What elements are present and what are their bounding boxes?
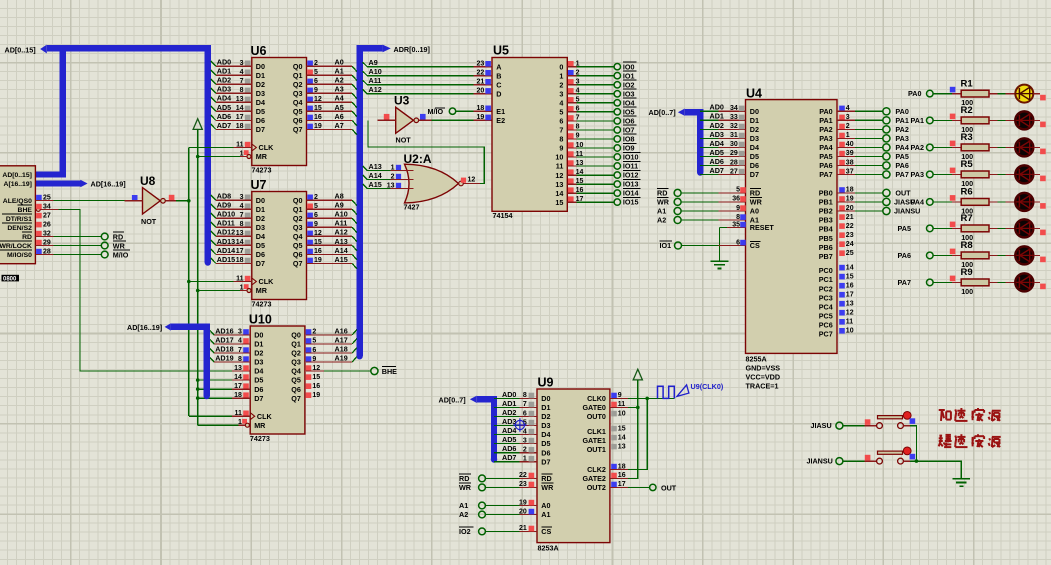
svg-text:8253A: 8253A bbox=[538, 544, 559, 553]
resistor R9 100 bbox=[961, 267, 990, 296]
bus entry AD19 to U10 bbox=[209, 357, 250, 362]
wire terminal to R8 bbox=[933, 249, 961, 256]
svg-text:6: 6 bbox=[523, 410, 527, 417]
wire U7 CLK pin bbox=[189, 281, 252, 283]
digital clock generator U9(CLK0) bbox=[658, 382, 724, 398]
svg-text:14: 14 bbox=[846, 264, 854, 271]
svg-text:D0: D0 bbox=[256, 196, 265, 205]
terminal A1 and wire to U9 pin 19 bbox=[459, 499, 537, 510]
svg-text:OUT: OUT bbox=[661, 484, 677, 493]
svg-text:PB0: PB0 bbox=[819, 189, 833, 198]
svg-text:R5: R5 bbox=[961, 159, 974, 170]
timer U9 body (8253A) bbox=[537, 376, 610, 553]
terminal IO15 bbox=[614, 197, 640, 206]
wire U10 Q0 to address bus (A16) bbox=[306, 326, 357, 335]
bus entry AD17 to U10 bbox=[209, 339, 250, 344]
svg-text:0: 0 bbox=[559, 62, 563, 71]
wire U3 output to U5 E2 bbox=[419, 119, 492, 121]
U4 pin 10 PC7 square bbox=[839, 328, 853, 335]
svg-text:JIANSU: JIANSU bbox=[807, 457, 833, 466]
U9 pin 2 D6 from bus (AD6) bbox=[494, 444, 537, 453]
U9 pin 8 D0 from bus (AD0) bbox=[494, 390, 537, 399]
resistor R1 100 bbox=[961, 78, 990, 107]
svg-text:1: 1 bbox=[559, 71, 563, 80]
U5 pin 19 E2 square bbox=[477, 114, 491, 121]
U5 output 8 (pin 9) wire to terminal IO8 bbox=[567, 133, 614, 140]
wire WR to terminal bbox=[35, 245, 101, 247]
svg-text:E1: E1 bbox=[496, 107, 505, 116]
U4 pin 15 PC1 square bbox=[839, 273, 853, 280]
svg-text:RD: RD bbox=[657, 189, 667, 198]
svg-text:22: 22 bbox=[846, 223, 854, 230]
svg-text:D4: D4 bbox=[256, 232, 265, 241]
bus entry AD13 to U7 bbox=[211, 240, 252, 245]
svg-text:ALE/QS0: ALE/QS0 bbox=[3, 198, 32, 205]
svg-text:DT/R/S1: DT/R/S1 bbox=[6, 216, 32, 223]
svg-text:A13: A13 bbox=[335, 237, 348, 246]
U5 output 12 (pin 14) wire to terminal IO12 bbox=[567, 169, 614, 176]
svg-text:A12: A12 bbox=[335, 228, 348, 237]
svg-text:PA6: PA6 bbox=[895, 161, 908, 170]
svg-text:RD: RD bbox=[750, 189, 760, 198]
svg-text:CLK: CLK bbox=[257, 412, 273, 421]
terminal feeding R6 bbox=[927, 199, 934, 206]
svg-text:PC3: PC3 bbox=[819, 293, 833, 302]
bus entry AD12 to U7 bbox=[211, 231, 252, 236]
U6 pin 11 CLK bbox=[236, 141, 250, 148]
svg-text:U9: U9 bbox=[538, 376, 554, 390]
wire U7 Q5 to address bus (A13) bbox=[307, 237, 357, 251]
svg-text:AD7: AD7 bbox=[502, 453, 516, 462]
svg-text:3: 3 bbox=[559, 90, 563, 99]
svg-text:11: 11 bbox=[556, 162, 564, 171]
svg-text:A11: A11 bbox=[335, 219, 348, 228]
svg-text:16: 16 bbox=[312, 383, 320, 390]
U4 pin 14 PC0 square bbox=[839, 264, 853, 271]
wire CLK0 to CLK2 bbox=[610, 398, 647, 469]
svg-text:Q7: Q7 bbox=[291, 394, 301, 403]
svg-text:IO1: IO1 bbox=[623, 71, 635, 80]
wire JIANSU terminal to button bbox=[843, 455, 877, 461]
svg-text:TRACE=1: TRACE=1 bbox=[746, 382, 779, 391]
svg-text:M/IO: M/IO bbox=[113, 251, 129, 260]
wire CLK vertical net bbox=[187, 148, 191, 417]
svg-text:Q4: Q4 bbox=[291, 367, 301, 376]
origin marker (blue crosshair) bbox=[513, 418, 527, 432]
wire R2 to LED bbox=[989, 119, 1015, 121]
svg-text:A6: A6 bbox=[335, 112, 344, 121]
svg-text:AD16: AD16 bbox=[215, 326, 233, 335]
terminal IO3 bbox=[614, 89, 636, 98]
net label PA3 for R5 bbox=[911, 170, 924, 179]
U4 pin 35 RESET wire to ground bbox=[720, 221, 746, 261]
terminal IO13 bbox=[614, 179, 640, 188]
svg-text:GATE1: GATE1 bbox=[582, 436, 605, 445]
svg-text:AD4: AD4 bbox=[502, 426, 516, 435]
svg-text:CLK1: CLK1 bbox=[587, 427, 606, 436]
terminal PA4 bbox=[883, 143, 909, 152]
bus entry A10 to U5 input bbox=[363, 67, 492, 76]
svg-text:AD2: AD2 bbox=[217, 76, 231, 85]
svg-text:D5: D5 bbox=[254, 376, 263, 385]
svg-text:AD8: AD8 bbox=[217, 192, 231, 201]
bus entry AD18 to U10 bbox=[209, 348, 250, 353]
wire terminal to R3 bbox=[933, 141, 961, 148]
U4 pin 18 PB0 wire to terminal OUT bbox=[837, 187, 883, 194]
wire U10 D6 tied to VCC net bbox=[198, 388, 251, 390]
wire U6 Q0 to address bus (A0) bbox=[307, 58, 357, 72]
svg-text:A18: A18 bbox=[335, 344, 348, 353]
svg-text:AD6: AD6 bbox=[217, 112, 231, 121]
U6 pin 1 MR bubble bbox=[240, 150, 251, 158]
svg-text:PA0: PA0 bbox=[908, 89, 921, 98]
svg-text:21: 21 bbox=[477, 79, 485, 86]
svg-text:AD9: AD9 bbox=[217, 201, 231, 210]
svg-text:9: 9 bbox=[736, 205, 740, 212]
svg-text:D6: D6 bbox=[750, 161, 759, 170]
svg-text:AD10: AD10 bbox=[217, 210, 235, 219]
svg-text:NOT: NOT bbox=[396, 136, 412, 145]
U3 output state square bbox=[420, 114, 426, 120]
svg-text:Q5: Q5 bbox=[291, 376, 301, 385]
U6 pin 7 D2 (AD2) bbox=[217, 76, 251, 85]
U7 pin 13 D4 (AD12) bbox=[217, 228, 251, 237]
svg-text:23: 23 bbox=[477, 61, 485, 68]
U4 pin 22 PB4 square bbox=[839, 223, 853, 230]
svg-text:CLK: CLK bbox=[259, 143, 275, 152]
svg-text:PC4: PC4 bbox=[819, 302, 833, 311]
U6 pin 16 Q6 (A6) bbox=[307, 114, 322, 121]
U10 pin 9 Q3 (A19) bbox=[306, 356, 317, 363]
wire U7 Q2 to address bus (A10) bbox=[307, 210, 357, 224]
svg-text:8: 8 bbox=[736, 214, 740, 221]
svg-text:IO7: IO7 bbox=[623, 126, 635, 135]
svg-text:IO8: IO8 bbox=[623, 135, 635, 144]
terminal WR and wire to U9 pin 23 bbox=[459, 481, 537, 492]
svg-text:A8: A8 bbox=[335, 192, 344, 201]
svg-text:D1: D1 bbox=[256, 205, 265, 214]
U5 output 13 (pin 15) wire to terminal IO13 bbox=[567, 178, 614, 185]
svg-text:IO2: IO2 bbox=[459, 527, 471, 536]
bus AD[16..19] label bbox=[127, 323, 171, 332]
svg-text:U5: U5 bbox=[493, 44, 509, 58]
svg-text:D7: D7 bbox=[541, 457, 550, 466]
wire R6 to LED bbox=[989, 201, 1015, 203]
U4 pin 2 PA2 wire to terminal PA2 bbox=[837, 123, 883, 130]
terminal IO14 bbox=[614, 188, 640, 197]
wire U6 Q2 to address bus (A2) bbox=[307, 76, 357, 90]
resistor R6 100 bbox=[961, 187, 990, 216]
U9 pin 6 D2 from bus (AD2) bbox=[494, 408, 537, 417]
U5 output 5 (pin 6) wire to terminal IO5 bbox=[567, 106, 614, 113]
svg-text:15: 15 bbox=[312, 374, 320, 381]
svg-text:AD2: AD2 bbox=[710, 121, 724, 130]
svg-text:IO10: IO10 bbox=[623, 153, 639, 162]
svg-text:7427: 7427 bbox=[404, 203, 420, 212]
svg-text:IO12: IO12 bbox=[623, 171, 639, 180]
bus entry AD2 to U6 bbox=[211, 79, 252, 84]
bus entry A12 to U5 input bbox=[363, 85, 492, 94]
svg-text:CS: CS bbox=[750, 241, 760, 250]
U7 pin 3 D0 (AD8) bbox=[217, 192, 251, 201]
svg-text:6: 6 bbox=[736, 239, 740, 246]
U9 pin 14 square bbox=[611, 434, 625, 441]
svg-text:D7: D7 bbox=[256, 125, 265, 134]
8086 pin 32 RD bbox=[36, 230, 51, 237]
svg-text:Q3: Q3 bbox=[293, 89, 303, 98]
svg-text:15: 15 bbox=[846, 273, 854, 280]
wire U6 Q1 to address bus (A1) bbox=[307, 67, 357, 81]
svg-text:DEN/S2: DEN/S2 bbox=[7, 225, 32, 232]
U7 pin 8 D3 (AD11) bbox=[217, 219, 251, 228]
decoder U5 body (74154) bbox=[492, 44, 567, 221]
svg-text:A12: A12 bbox=[369, 85, 382, 94]
terminal BHE bbox=[371, 367, 397, 376]
terminal IO4 bbox=[614, 98, 636, 107]
U5 output 1 (pin 2) wire to terminal IO1 bbox=[567, 70, 614, 77]
svg-text:D1: D1 bbox=[541, 403, 550, 412]
wire U7 Q4 to address bus (A12) bbox=[307, 228, 357, 242]
terminal feeding R3 bbox=[927, 144, 934, 151]
svg-text:22: 22 bbox=[519, 472, 527, 479]
svg-text:PA5: PA5 bbox=[895, 152, 908, 161]
U10 pin 13 D4 () bbox=[234, 365, 249, 372]
U5 output 9 (pin 10) wire to terminal IO9 bbox=[567, 142, 614, 149]
terminal M/IO (8086) bbox=[101, 250, 130, 259]
svg-text:AD[0..7]: AD[0..7] bbox=[439, 396, 466, 405]
svg-text:CLK2: CLK2 bbox=[587, 465, 606, 474]
8086 CPU U? (partially visible at left edge) bbox=[0, 166, 35, 264]
svg-text:AD15: AD15 bbox=[217, 255, 235, 264]
terminal JIANSU (button input) bbox=[807, 457, 843, 466]
U6 pin 6 Q2 (A2) bbox=[307, 78, 318, 85]
ground symbol below U4 RESET bbox=[711, 261, 729, 268]
svg-text:A13: A13 bbox=[369, 162, 382, 171]
svg-text:AD11: AD11 bbox=[217, 219, 235, 228]
svg-text:R2: R2 bbox=[961, 105, 973, 116]
svg-text:PB7: PB7 bbox=[819, 252, 833, 261]
svg-text:PA7: PA7 bbox=[819, 170, 832, 179]
svg-text:R3: R3 bbox=[961, 132, 973, 143]
svg-text:R8: R8 bbox=[961, 240, 973, 251]
svg-text:ADR[0..19]: ADR[0..19] bbox=[394, 45, 430, 54]
svg-text:D6: D6 bbox=[254, 385, 263, 394]
svg-text:PB1: PB1 bbox=[819, 198, 833, 207]
svg-text:33: 33 bbox=[730, 114, 738, 121]
svg-text:12: 12 bbox=[468, 177, 476, 184]
U10 pin 3 D0 (AD16) bbox=[215, 326, 249, 335]
svg-text:Q4: Q4 bbox=[293, 232, 303, 241]
U4 pin 3 PA1 wire to terminal PA1 bbox=[837, 114, 883, 121]
wire U6 Q3 to address bus (A3) bbox=[307, 85, 357, 99]
svg-text:D1: D1 bbox=[254, 340, 263, 349]
U8 output state square bbox=[169, 195, 175, 201]
terminal feeding R7 bbox=[927, 225, 934, 232]
terminal IO6 bbox=[614, 116, 636, 125]
U4 pin 25 PB7 square bbox=[839, 250, 853, 257]
bus entry AD10 to U7 bbox=[211, 213, 252, 218]
svg-text:IO15: IO15 bbox=[623, 198, 639, 207]
svg-text:AD19: AD19 bbox=[215, 353, 233, 362]
svg-text:CS: CS bbox=[541, 527, 551, 536]
net label PA0 for R1 bbox=[908, 89, 921, 98]
svg-text:PA0: PA0 bbox=[819, 107, 832, 116]
U5 output 14 (pin 16) wire to terminal IO14 bbox=[567, 187, 614, 194]
svg-text:27: 27 bbox=[43, 212, 51, 219]
svg-text:D5: D5 bbox=[750, 152, 759, 161]
svg-text:GATE0: GATE0 bbox=[582, 403, 605, 412]
wire BHE to U10 D4 bbox=[40, 210, 250, 372]
U10 pin 8 D3 (AD19) bbox=[215, 353, 249, 362]
terminal IO11 bbox=[614, 161, 640, 170]
svg-text:13: 13 bbox=[387, 182, 395, 189]
terminal RD and wire to U9 pin 22 bbox=[459, 472, 537, 483]
svg-text:IO9: IO9 bbox=[623, 144, 635, 153]
svg-text:R9: R9 bbox=[961, 267, 973, 278]
svg-text:PB2: PB2 bbox=[819, 207, 833, 216]
U8 input pin bbox=[125, 200, 143, 202]
svg-text:MR: MR bbox=[254, 421, 266, 430]
svg-text:A1: A1 bbox=[459, 501, 468, 510]
svg-text:25: 25 bbox=[846, 250, 854, 257]
svg-text:B: B bbox=[496, 71, 501, 80]
svg-text:0800: 0800 bbox=[3, 277, 17, 283]
wire terminal to R6 bbox=[933, 195, 961, 202]
U5 pin 18 E1 square bbox=[477, 105, 491, 112]
U9 pin 15 square bbox=[611, 425, 625, 432]
svg-text:D0: D0 bbox=[750, 107, 759, 116]
svg-text:PC0: PC0 bbox=[819, 266, 833, 275]
svg-text:6: 6 bbox=[559, 117, 563, 126]
terminal PA1 bbox=[883, 116, 909, 125]
wire M/IO terminal to U5 E1 bbox=[456, 110, 492, 112]
svg-text:A0: A0 bbox=[750, 207, 759, 216]
U5 output 10 (pin 11) wire to terminal IO10 bbox=[567, 151, 614, 158]
svg-text:D5: D5 bbox=[541, 439, 550, 448]
U5 output 0 (pin 1) wire to terminal IO0 bbox=[567, 61, 614, 68]
latch U6 body (74273) bbox=[251, 44, 307, 175]
U7 pin 19 Q7 (A15) bbox=[307, 257, 322, 264]
svg-text:D: D bbox=[496, 90, 501, 99]
svg-text:Q2: Q2 bbox=[291, 349, 301, 358]
svg-text:D0: D0 bbox=[541, 394, 550, 403]
power VCC arrow (U9 gates) bbox=[633, 369, 642, 380]
svg-text:WR: WR bbox=[113, 242, 126, 251]
bus AD[0..7] to U9 bbox=[439, 396, 498, 463]
U4 pin 33 D1 from bus (AD1) bbox=[700, 112, 745, 121]
U10 pin 5 Q1 (A17) bbox=[306, 338, 317, 345]
svg-text:AD1: AD1 bbox=[502, 399, 516, 408]
U9 pin 5 D3 from bus (AD3) bbox=[494, 417, 537, 426]
8086 pin 34 BHE bubble bbox=[36, 203, 51, 211]
wire VCC vertical to MR pins bbox=[196, 129, 200, 425]
svg-text:AD0: AD0 bbox=[217, 58, 231, 67]
svg-text:20: 20 bbox=[477, 88, 485, 95]
svg-text:34: 34 bbox=[730, 105, 738, 112]
U10 pin 2 Q0 (A16) bbox=[306, 329, 317, 336]
svg-text:PA4: PA4 bbox=[819, 143, 832, 152]
svg-text:AD18: AD18 bbox=[215, 344, 233, 353]
svg-text:D5: D5 bbox=[256, 241, 265, 250]
LED D4 bbox=[1015, 165, 1033, 183]
svg-text:AD1: AD1 bbox=[710, 112, 724, 121]
U6 pin 2 Q0 (A0) bbox=[307, 60, 318, 67]
bus entry A11 to U5 input bbox=[363, 76, 492, 85]
svg-text:PC7: PC7 bbox=[819, 329, 833, 338]
bus entry A9 to U5 input bbox=[363, 58, 492, 67]
svg-text:IO11: IO11 bbox=[623, 162, 638, 171]
svg-text:AD[0..15]: AD[0..15] bbox=[5, 45, 36, 54]
svg-text:22: 22 bbox=[477, 70, 485, 77]
terminal PA2 bbox=[883, 125, 909, 134]
bus entry AD6 to U6 bbox=[211, 115, 252, 120]
U9 pin 16 square bbox=[611, 472, 625, 479]
svg-text:AD[0..7]: AD[0..7] bbox=[649, 108, 676, 117]
svg-text:PB6: PB6 bbox=[819, 243, 833, 252]
U6 pin 14 D5 (AD5) bbox=[217, 103, 251, 112]
svg-text:AD[0..15]: AD[0..15] bbox=[2, 172, 31, 179]
U10 pin 11 CLK bbox=[234, 410, 248, 417]
terminal IO1 and wire to U4 CS pin 6 bbox=[660, 239, 746, 250]
svg-text:R6: R6 bbox=[961, 187, 973, 198]
U9 pin 13 square bbox=[611, 443, 625, 450]
U7 pin 9 Q3 (A11) bbox=[307, 221, 318, 228]
svg-text:PA3: PA3 bbox=[895, 134, 908, 143]
svg-text:D2: D2 bbox=[256, 214, 265, 223]
U4 pin 29 D5 from bus (AD5) bbox=[700, 148, 745, 157]
LED D3 bbox=[1015, 138, 1033, 156]
svg-text:AD5: AD5 bbox=[502, 435, 516, 444]
svg-text:18: 18 bbox=[477, 105, 485, 112]
U9 pin 17 square bbox=[611, 481, 625, 488]
U7 pin 11 CLK bbox=[236, 275, 250, 282]
svg-text:D7: D7 bbox=[254, 394, 263, 403]
svg-text:U9(CLK0): U9(CLK0) bbox=[691, 382, 724, 391]
svg-text:A16: A16 bbox=[335, 326, 348, 335]
svg-text:A2: A2 bbox=[459, 510, 468, 519]
bus AD[16..19] to U10 bbox=[171, 327, 210, 399]
inverter U3 bbox=[394, 94, 419, 145]
chinese label JIANSU (decelerate button) bbox=[939, 434, 1001, 447]
svg-text:19: 19 bbox=[519, 499, 527, 506]
U6 pin 8 D3 (AD3) bbox=[217, 85, 251, 94]
LED D1 (lit) bbox=[1015, 85, 1033, 103]
svg-text:OUT2: OUT2 bbox=[587, 483, 606, 492]
U6 pin 9 Q3 (A3) bbox=[307, 87, 318, 94]
LED D6 cathode pin + state square bbox=[1033, 228, 1045, 235]
svg-text:PA1: PA1 bbox=[911, 116, 924, 125]
U5 output 15 (pin 17) wire to terminal IO15 bbox=[567, 196, 614, 203]
svg-text:WR: WR bbox=[750, 198, 763, 207]
U3 input state square bbox=[384, 114, 390, 120]
U7 pin 17 D6 (AD14) bbox=[217, 246, 251, 255]
svg-text:AD14: AD14 bbox=[217, 246, 235, 255]
U4 pin 11 PC6 square bbox=[839, 319, 853, 326]
svg-text:D5: D5 bbox=[256, 107, 265, 116]
svg-text:26: 26 bbox=[43, 221, 51, 228]
svg-text:D0: D0 bbox=[254, 331, 263, 340]
svg-text:15: 15 bbox=[555, 198, 563, 207]
chinese label JIASU (accelerate button) bbox=[939, 408, 1001, 421]
U6 pin 18 D7 (AD7) bbox=[217, 121, 251, 130]
terminal M/IO (to U5 E1) bbox=[428, 107, 456, 116]
power VCC arrow (latch MR net) bbox=[193, 119, 202, 130]
svg-text:Q5: Q5 bbox=[293, 241, 303, 250]
svg-text:21: 21 bbox=[519, 525, 527, 532]
push button JIANSU bbox=[877, 447, 916, 464]
svg-text:Q3: Q3 bbox=[291, 358, 301, 367]
LED D2 cathode pin + state square bbox=[1033, 120, 1045, 127]
